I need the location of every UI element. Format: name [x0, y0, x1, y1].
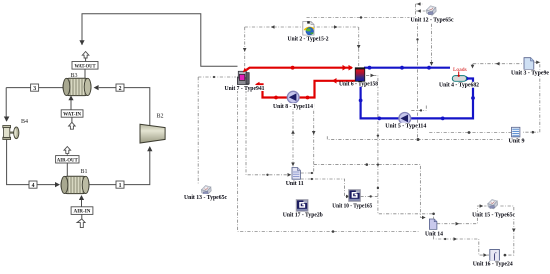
- svg-text:Unit 13 - Type65c: Unit 13 - Type65c: [184, 194, 227, 201]
- svg-text:4: 4: [32, 183, 35, 189]
- svg-text:Unit 5 - Type114: Unit 5 - Type114: [385, 123, 426, 130]
- svg-text:Unit 10 - Type165: Unit 10 - Type165: [332, 203, 372, 210]
- svg-text:Unit 3 - Type9e: Unit 3 - Type9e: [511, 70, 549, 77]
- svg-text:AIR-IN: AIR-IN: [74, 210, 91, 215]
- svg-text:WAT-OUT: WAT-OUT: [75, 64, 97, 69]
- svg-text:Unit 2 - Type15-2: Unit 2 - Type15-2: [288, 35, 329, 42]
- svg-text:Unit 6 - Type158: Unit 6 - Type158: [339, 81, 378, 88]
- svg-text:Unit 14: Unit 14: [425, 231, 443, 238]
- svg-text:WAT-IN: WAT-IN: [63, 113, 81, 118]
- svg-text:B2: B2: [157, 114, 164, 120]
- svg-text:Unit 15 - Type65c: Unit 15 - Type65c: [472, 212, 515, 219]
- svg-text:Unit 17 - Type2b: Unit 17 - Type2b: [283, 212, 324, 219]
- svg-text:Loads: Loads: [453, 67, 467, 73]
- svg-text:B4: B4: [21, 119, 28, 125]
- svg-text:AIR-OUT: AIR-OUT: [57, 158, 79, 163]
- svg-text:Unit 11: Unit 11: [286, 180, 304, 187]
- svg-text:3: 3: [33, 86, 36, 92]
- svg-text:1: 1: [119, 183, 122, 189]
- svg-text:2: 2: [119, 86, 122, 92]
- svg-text:Unit 8 - Type114: Unit 8 - Type114: [273, 103, 313, 110]
- svg-text:Unit 7 - Type941: Unit 7 - Type941: [225, 85, 265, 92]
- svg-text:B1: B1: [81, 169, 88, 175]
- svg-text:Unit 12 - Type65c: Unit 12 - Type65c: [411, 17, 454, 24]
- svg-text:Unit 9: Unit 9: [509, 138, 525, 145]
- svg-text:Unit 4 - Type682: Unit 4 - Type682: [439, 82, 479, 89]
- svg-text:Unit 16 - Type24: Unit 16 - Type24: [473, 261, 513, 268]
